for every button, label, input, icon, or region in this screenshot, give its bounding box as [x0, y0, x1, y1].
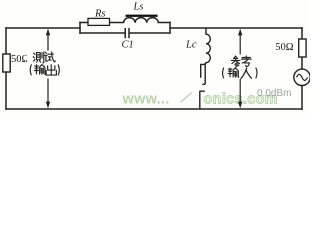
svg-text:Lc: Lc — [185, 39, 197, 50]
resistor Rs — [88, 18, 110, 25]
label text: (shu ru) / (input) — [223, 68, 257, 79]
inductor Lc — [201, 28, 211, 84]
svg-text:50Ω: 50Ω — [275, 42, 294, 53]
wire top rail (Rs/Ls branch) — [80, 22, 170, 24]
svg-text:50Ω: 50Ω — [11, 54, 30, 65]
label text: can kao (reference) — [231, 56, 251, 67]
inductor Ls — [124, 18, 159, 23]
wire bottom — [6, 108, 302, 110]
svg-text:Ls: Ls — [133, 1, 144, 12]
node split-left vertical — [79, 23, 81, 34]
wire top-left segment — [6, 27, 80, 29]
svg-text:Rs: Rs — [94, 9, 106, 20]
label text: ce shi (test) — [33, 52, 55, 63]
resistor R2 50ohm (source) — [299, 39, 306, 57]
resistor R1 50ohm (test port) — [3, 54, 10, 72]
svg-text:C1: C1 — [122, 40, 134, 51]
annotation arrow (test/output) — [46, 29, 50, 109]
wire right — [301, 28, 303, 109]
inductor Ls core bar — [126, 15, 158, 17]
source G1 (AC generator) — [294, 69, 310, 85]
wire bottom rail (C1 branch) — [80, 32, 170, 34]
wire top-middle segment — [170, 27, 302, 29]
capacitor C1 — [125, 28, 129, 38]
annotation arrow (reference/input) — [238, 29, 242, 109]
label test (output) — [27, 51, 63, 79]
wire Lc lower tail — [200, 91, 205, 109]
svg-text:0.0dBm: 0.0dBm — [257, 88, 291, 99]
label text: (shu chu) / (output) — [30, 65, 59, 75]
wire left — [5, 28, 7, 109]
svg-text:www...: www... — [122, 92, 170, 108]
label reference (input) — [220, 55, 260, 80]
node rejoin-right vertical — [169, 23, 171, 34]
